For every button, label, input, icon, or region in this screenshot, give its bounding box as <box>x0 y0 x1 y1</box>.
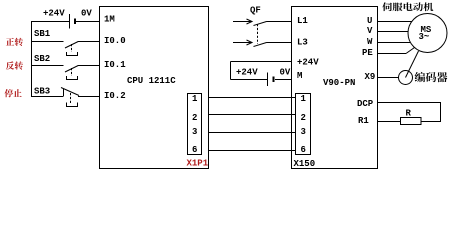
svg-text:0V: 0V <box>81 9 92 19</box>
svg-text:0V: 0V <box>280 68 291 78</box>
svg-text:QF: QF <box>250 6 261 16</box>
svg-text:M: M <box>297 71 302 81</box>
encoder B1 circle <box>399 71 413 85</box>
svg-text:1: 1 <box>301 94 307 104</box>
svg-text:U: U <box>367 16 372 26</box>
svg-text:DCP: DCP <box>357 99 374 109</box>
svg-text:1: 1 <box>192 94 198 104</box>
svg-text:2: 2 <box>192 113 197 123</box>
label 正转 (forward) <box>6 38 14 46</box>
svg-text:SB2: SB2 <box>34 54 50 64</box>
connector X1P1 box <box>188 94 202 155</box>
svg-text:SB3: SB3 <box>34 87 50 97</box>
pushbutton SB1 (NO) <box>31 29 100 56</box>
PROFINET wire pin2 <box>208 114 296 116</box>
svg-text:3~: 3~ <box>419 32 430 42</box>
wire: left supply rail <box>31 21 33 97</box>
motor M1 circle MS 3~ <box>408 14 447 53</box>
svg-text:L3: L3 <box>297 38 308 48</box>
svg-text:X1P1: X1P1 <box>187 159 209 169</box>
PROFINET wire pin6 <box>208 150 296 152</box>
svg-text:R1: R1 <box>358 116 369 126</box>
circuit breaker QF (2-pole) <box>233 6 292 47</box>
pushbutton SB2 (NO) <box>31 54 100 80</box>
wire PE <box>378 53 407 55</box>
svg-text:CPU 1211C: CPU 1211C <box>127 76 176 86</box>
servo drive V90-PN box <box>292 7 378 169</box>
wire V <box>378 31 409 33</box>
svg-text:I0.1: I0.1 <box>104 60 126 70</box>
svg-text:+24V: +24V <box>297 58 319 68</box>
wire: left rail to battery <box>31 21 69 23</box>
svg-text:I0.2: I0.2 <box>104 91 126 101</box>
shaft: encoder to motor <box>406 51 419 78</box>
svg-text:X9: X9 <box>365 72 376 82</box>
svg-text:W: W <box>367 37 373 47</box>
PROFINET wire pin1 <box>208 97 296 99</box>
PLC CPU 1211C box <box>100 7 209 169</box>
wire W <box>378 42 411 44</box>
svg-text:PE: PE <box>362 48 373 58</box>
svg-text:+24V: +24V <box>43 9 65 19</box>
svg-text:R: R <box>406 109 412 119</box>
svg-text:I0.0: I0.0 <box>104 36 126 46</box>
svg-text:2: 2 <box>301 113 306 123</box>
connector X150 box <box>296 94 311 155</box>
svg-text:6: 6 <box>192 145 197 155</box>
svg-text:V90-PN: V90-PN <box>323 78 355 88</box>
svg-text:3: 3 <box>301 127 306 137</box>
wire DCP to resistor loop <box>378 103 441 122</box>
pushbutton SB3 (NC) <box>31 87 100 107</box>
wire X9 to encoder <box>378 77 399 79</box>
battery G1 +24V/0V supply (CPU side) <box>70 14 76 29</box>
svg-text:X150: X150 <box>294 159 316 169</box>
battery G2 +24V/0V supply (drive side) <box>231 62 292 87</box>
svg-text:6: 6 <box>301 145 306 155</box>
svg-text:SB1: SB1 <box>34 29 51 39</box>
label 编码器 (encoder) <box>415 72 425 82</box>
wire U <box>378 21 413 23</box>
wire R1 <box>378 121 401 123</box>
label 反转 (reverse) <box>6 61 14 69</box>
label 停止 (stop) <box>5 89 14 97</box>
label 伺服电动机 (servo motor) <box>382 2 392 11</box>
wire: battery to 1M terminal <box>76 21 100 23</box>
svg-text:V: V <box>367 26 373 36</box>
svg-text:3: 3 <box>192 127 197 137</box>
PROFINET wire pin3 <box>208 132 296 134</box>
resistor R <box>401 118 422 125</box>
svg-text:1M: 1M <box>104 15 115 25</box>
svg-text:+24V: +24V <box>236 68 258 78</box>
svg-text:L1: L1 <box>297 16 308 26</box>
